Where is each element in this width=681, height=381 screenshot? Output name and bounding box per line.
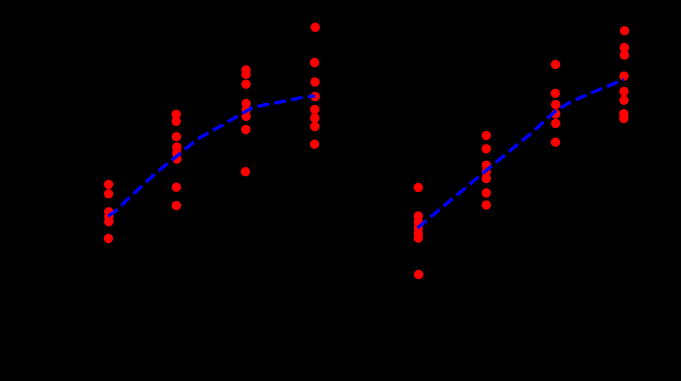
dot R3a [551,60,560,69]
dot R4d [619,71,628,80]
dot L3f [241,125,250,134]
dot R2d [482,167,491,176]
dot L4c [310,77,319,86]
left panel dot group 2 (x=176.4) [172,110,182,211]
right panel dot group 2 (x=486.3) [482,131,491,210]
dot R3e [551,119,560,128]
dot L3d [241,105,250,114]
dot R1a [414,183,423,192]
dot L2b [172,117,181,126]
dot R1c [414,217,423,226]
dot L4d [310,92,319,101]
dot L1c [104,207,113,216]
dot L2g [172,183,181,192]
dot R3c [551,100,560,109]
dot L2h [172,201,181,210]
dot L1b [104,189,113,198]
right panel dot group 1 (x=418.3) [414,183,424,279]
dot R4c [620,50,629,59]
dot L3b [241,80,250,89]
dot L3a2 [241,70,250,79]
dot L1a [104,180,113,189]
dot L1d [104,212,113,221]
dot R2g [482,200,491,209]
left panel dot group 3 (x=246) [241,65,251,176]
dot R3d [551,109,560,118]
dot R2f [482,188,491,197]
dot R3b [551,89,560,98]
dot R4h [619,114,628,123]
dot L1f [104,234,113,243]
dot L2c [172,132,181,141]
dot L2f [172,154,181,163]
dot L4h [310,140,319,149]
dot R1f [414,270,423,279]
dot R2c [482,161,491,170]
dot R1d [414,223,423,232]
dot R1b [414,211,423,220]
dot L3a [241,65,250,74]
dot L3g [241,167,250,176]
dot R4b [620,43,629,52]
dot R2e [482,174,491,183]
dot R4a [620,26,629,35]
dot L4b [310,58,319,67]
left panel dot group 1 (x=108.6) [104,180,114,243]
dot R3f [551,138,560,147]
dot R4g [619,109,628,118]
dot L3e [241,112,250,121]
dot R2b [482,144,491,153]
left panel fitted dashed curve [108,96,315,216]
dot L4e [310,105,319,114]
dot R4f [619,96,628,105]
right panel dot group 4 (x=624.5) [619,26,629,123]
dot L1e [104,217,113,226]
dot L2e [172,148,181,157]
dot L3c [241,99,250,108]
right panel fitted dashed curve [418,80,625,229]
left panel dot group 4 (x=315) [310,23,320,149]
dot L2a [172,110,181,119]
dot L4f [310,113,319,122]
dot R2a [482,131,491,140]
dot L2d [172,142,181,151]
dot R1e [414,228,423,237]
right panel dot group 3 (x=555.5) [551,60,561,147]
dot R4e [619,87,628,96]
dot L4a [311,23,320,32]
dot L4g [310,122,319,131]
dot R1e2 [414,233,423,242]
